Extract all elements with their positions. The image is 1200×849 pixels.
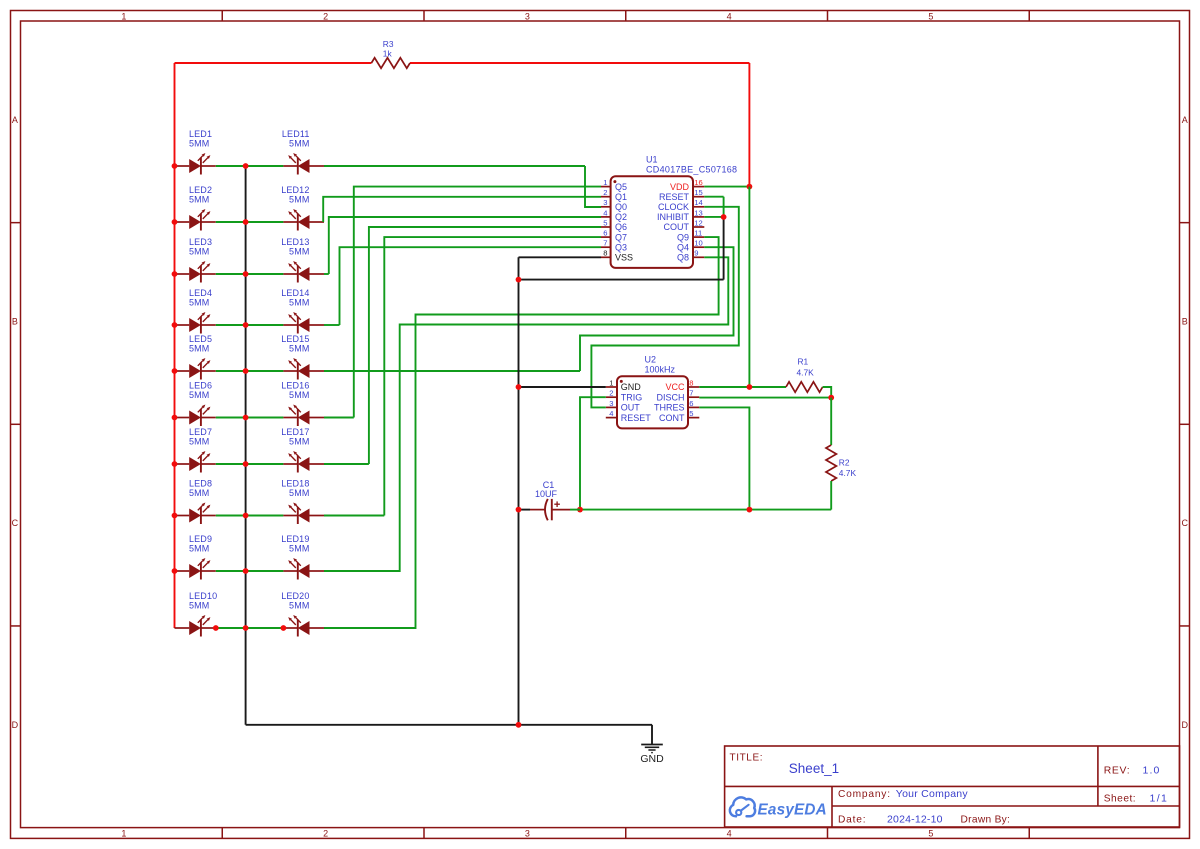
wire RESET pin15 [704, 196, 723, 198]
svg-text:1: 1 [121, 829, 126, 839]
svg-text:Drawn By:: Drawn By: [961, 815, 1011, 826]
wire row8 stub [324, 515, 384, 517]
svg-text:5MM: 5MM [289, 247, 309, 257]
svg-text:REV:: REV: [1104, 765, 1131, 776]
svg-text:LED6: LED6 [189, 381, 212, 391]
U1 pin 3 Q0 [601, 206, 611, 208]
svg-text:LED16: LED16 [281, 381, 309, 391]
svg-text:5MM: 5MM [289, 390, 309, 400]
wire LED3 cathode [216, 273, 246, 275]
svg-text:Q4: Q4 [677, 242, 689, 252]
svg-text:RESET: RESET [621, 413, 652, 423]
svg-text:COUT: COUT [664, 222, 690, 232]
wire LED9 cathode [216, 570, 246, 572]
wire TRIG to rail [580, 397, 606, 509]
svg-text:9: 9 [694, 249, 698, 258]
LED20 5MM [281, 591, 324, 636]
U1 pin 5 Q6 [601, 226, 611, 228]
svg-text:B: B [1182, 317, 1188, 327]
svg-text:5MM: 5MM [189, 195, 209, 205]
node rail THRES [747, 507, 753, 513]
svg-text:Q1: Q1 [615, 192, 627, 202]
svg-text:D: D [1181, 720, 1188, 730]
wire row5 horizontal [324, 370, 580, 372]
wire row3 stub [324, 273, 329, 275]
wire VDD pin16 [704, 186, 749, 188]
svg-text:4: 4 [603, 208, 607, 217]
svg-text:4.7K: 4.7K [797, 367, 815, 377]
node anode bus row 6 [172, 415, 178, 421]
svg-text:100kHz: 100kHz [645, 365, 676, 375]
LED11 5MM [282, 129, 324, 174]
svg-text:LED5: LED5 [189, 334, 212, 344]
svg-text:INHIBIT: INHIBIT [657, 212, 690, 222]
U2 pin 8 VCC [688, 386, 699, 388]
svg-text:Q0: Q0 [615, 202, 627, 212]
svg-text:LED17: LED17 [281, 427, 309, 437]
U1 pin 15 RESET [693, 196, 704, 198]
svg-text:TITLE:: TITLE: [730, 753, 764, 764]
svg-text:LED7: LED7 [189, 427, 212, 437]
U1 pin 6 Q7 [601, 236, 611, 238]
node cathode bus row 7 [243, 461, 249, 467]
U2 pin 6 THRES [688, 406, 699, 408]
svg-text:8: 8 [603, 249, 607, 258]
svg-text:LED20: LED20 [281, 591, 309, 601]
svg-text:LED10: LED10 [189, 591, 217, 601]
resistor R3 [371, 58, 410, 68]
svg-text:1: 1 [609, 378, 613, 387]
wire ground run [246, 724, 652, 726]
node anode bus row 8 [172, 513, 178, 519]
svg-text:5MM: 5MM [289, 139, 309, 149]
svg-text:3: 3 [609, 399, 613, 408]
svg-text:C: C [12, 518, 19, 528]
svg-text:14: 14 [694, 198, 702, 207]
svg-text:LED2: LED2 [189, 185, 212, 195]
svg-text:16: 16 [694, 178, 702, 187]
svg-text:CLOCK: CLOCK [658, 202, 689, 212]
wire LED5 cathode [216, 370, 246, 372]
U1 pin 8 VSS [601, 256, 611, 258]
LED13 5MM [281, 237, 324, 282]
wire row7 to Q6 [369, 227, 601, 464]
wire row4 to Q3 [340, 247, 602, 325]
svg-text:CD4017BE_C507168: CD4017BE_C507168 [646, 164, 737, 174]
wire row1 to Q0 [324, 165, 585, 167]
svg-text:5MM: 5MM [289, 601, 309, 611]
LED15 5MM [281, 334, 324, 379]
wire row4 stub [324, 324, 340, 326]
node anode bus row 5 [172, 368, 178, 374]
LED2 5MM [175, 185, 216, 230]
svg-text:11: 11 [694, 229, 702, 238]
capacitor C1 10UF [530, 480, 570, 520]
wire U2 GND [519, 386, 606, 388]
node anode bus row 3 [172, 271, 178, 277]
svg-text:6: 6 [603, 229, 607, 238]
wire cathode bus [245, 166, 247, 725]
node anode bus row 4 [172, 322, 178, 328]
svg-text:5: 5 [928, 829, 933, 839]
svg-text:5MM: 5MM [289, 298, 309, 308]
svg-text:THRES: THRES [654, 403, 685, 413]
wire VDD down to VCC [748, 187, 750, 387]
svg-text:VSS: VSS [615, 253, 633, 263]
wire LED18 cathode [246, 515, 284, 517]
wire ground bus vertical [518, 257, 520, 725]
LED14 5MM [281, 288, 324, 333]
node U2 GND branch [516, 384, 522, 390]
svg-text:R2: R2 [839, 457, 850, 467]
wire row5 to Q4 [580, 247, 734, 371]
svg-text:5MM: 5MM [289, 437, 309, 447]
svg-text:5MM: 5MM [189, 437, 209, 447]
LED4 5MM [175, 288, 216, 333]
svg-text:EasyEDA: EasyEDA [758, 802, 827, 819]
wire row6 stub [324, 417, 354, 419]
wire LED8 cathode [216, 515, 246, 517]
wire row10 to Q9 [324, 237, 719, 628]
wire VDD top right [410, 62, 749, 64]
svg-text:LED14: LED14 [281, 288, 309, 298]
svg-text:LED1: LED1 [189, 129, 212, 139]
U2 pin 2 TRIG [606, 396, 617, 398]
svg-text:8: 8 [689, 378, 693, 387]
svg-text:5MM: 5MM [189, 488, 209, 498]
node C1 ground [516, 507, 522, 513]
LED1 5MM [175, 129, 216, 174]
node cathode bus row 10 [243, 625, 249, 631]
LED10 5MM [175, 591, 218, 636]
svg-text:5: 5 [603, 218, 607, 227]
svg-text:1/1: 1/1 [1150, 793, 1169, 805]
IC U2 100kHz 555 timer body [617, 376, 688, 428]
svg-text:TRIG: TRIG [621, 392, 643, 402]
svg-text:R1: R1 [798, 357, 809, 367]
wire ground drop [651, 725, 653, 745]
wire LED15 cathode [246, 370, 284, 372]
U2 pin 3 OUT [606, 406, 617, 408]
wire LED20 cathode [246, 627, 284, 629]
LED18 5MM [281, 479, 324, 524]
wire LED6 cathode [216, 417, 246, 419]
wire LED17 cathode [246, 463, 284, 465]
wire CLOCK to OUT [591, 207, 738, 408]
svg-text:12: 12 [694, 218, 702, 227]
svg-text:1: 1 [121, 11, 126, 21]
wire RESET drop [723, 197, 725, 218]
svg-text:LED12: LED12 [281, 185, 309, 195]
svg-text:5MM: 5MM [189, 544, 209, 554]
node anode bus row 1 [172, 163, 178, 169]
LED17 5MM [281, 427, 324, 472]
svg-text:4: 4 [609, 409, 613, 418]
resistor R2 4.7K [826, 445, 836, 481]
U2 pin 4 RESET [606, 417, 617, 419]
svg-text:7: 7 [603, 239, 607, 248]
U1 pin 13 INHIBIT [693, 216, 704, 218]
EasyEDA logo [730, 797, 827, 818]
node anode bus row 9 [172, 568, 178, 574]
svg-text:1.0: 1.0 [1143, 764, 1161, 776]
wire C1 left [519, 509, 531, 511]
svg-text:LED3: LED3 [189, 237, 212, 247]
wire LED4 cathode [216, 324, 246, 326]
svg-text:Sheet:: Sheet: [1104, 794, 1136, 805]
svg-text:GND: GND [621, 382, 642, 392]
svg-text:Date:: Date: [838, 815, 866, 826]
svg-text:U2: U2 [645, 355, 657, 365]
LED6 5MM [175, 381, 216, 426]
U1 pin 7 Q3 [601, 246, 611, 248]
svg-text:4: 4 [727, 829, 732, 839]
svg-text:2: 2 [609, 389, 613, 398]
svg-text:5: 5 [689, 409, 693, 418]
svg-text:Q7: Q7 [615, 232, 627, 242]
svg-text:3: 3 [525, 11, 530, 21]
svg-text:Sheet_1: Sheet_1 [789, 761, 839, 776]
wire VDD top left [175, 62, 372, 64]
svg-text:2: 2 [603, 188, 607, 197]
svg-text:Q8: Q8 [677, 253, 689, 263]
node ground junction [516, 722, 522, 728]
svg-text:5MM: 5MM [189, 601, 209, 611]
wire C1 right [570, 509, 580, 511]
wire row2 to Q1 [323, 197, 601, 222]
node DISCH junction [828, 395, 834, 401]
svg-text:Q9: Q9 [677, 232, 689, 242]
node cathode bus row 6 [243, 415, 249, 421]
svg-text:4: 4 [727, 11, 732, 21]
svg-text:A: A [12, 115, 18, 125]
svg-text:5MM: 5MM [189, 139, 209, 149]
node INHIBIT junction [721, 214, 727, 220]
svg-text:10: 10 [694, 239, 702, 248]
LED7 5MM [175, 427, 216, 472]
wire row3 to Q2 [329, 217, 601, 274]
svg-text:U1: U1 [646, 155, 658, 165]
LED12 5MM [281, 185, 324, 230]
svg-text:5MM: 5MM [189, 390, 209, 400]
wire inhibit to vss run [519, 279, 724, 281]
node rail C1 [577, 507, 583, 513]
node VSS branch [516, 277, 522, 283]
svg-text:DISCH: DISCH [656, 392, 684, 402]
wire row8 to Q7 [384, 237, 601, 515]
wire LED2 cathode [216, 221, 246, 223]
svg-text:LED19: LED19 [281, 534, 309, 544]
title block [725, 746, 1180, 827]
wire LED7 cathode [216, 463, 246, 465]
node cathode bus row 2 [243, 219, 249, 225]
svg-text:Q3: Q3 [615, 242, 627, 252]
LED9 5MM [175, 534, 216, 579]
node cathode bus row 1 [243, 163, 249, 169]
svg-text:3: 3 [603, 198, 607, 207]
wire anode bus [174, 63, 176, 628]
node anode bus row 2 [172, 219, 178, 225]
U1 pin 9 Q8 [693, 256, 704, 258]
wire LED14 cathode [246, 324, 284, 326]
svg-text:5: 5 [928, 11, 933, 21]
svg-text:RESET: RESET [659, 192, 690, 202]
svg-text:5MM: 5MM [289, 488, 309, 498]
U1 pin 16 VDD [693, 186, 704, 188]
wire DISCH pin7 [699, 397, 831, 399]
svg-text:10UF: 10UF [535, 489, 558, 499]
svg-text:LED8: LED8 [189, 479, 212, 489]
wire R2 to rail [830, 481, 832, 510]
U1 pin 1 Q5 [601, 186, 611, 188]
ground [640, 745, 664, 766]
wire INHIBIT pin13 [704, 216, 723, 218]
svg-text:Q5: Q5 [615, 182, 627, 192]
svg-text:5MM: 5MM [189, 344, 209, 354]
wire LED16 cathode [246, 417, 284, 419]
svg-text:4.7K: 4.7K [839, 468, 857, 478]
svg-text:5MM: 5MM [289, 195, 309, 205]
wire VCC pin8 to R1 [699, 386, 786, 388]
node cathode bus row 9 [243, 568, 249, 574]
svg-text:5MM: 5MM [189, 298, 209, 308]
svg-text:5MM: 5MM [289, 544, 309, 554]
node cathode bus row 4 [243, 322, 249, 328]
wire LED11 cathode [246, 165, 284, 167]
wire VDD right drop [748, 63, 750, 187]
wire inhibit to vss drop [723, 217, 725, 280]
svg-text:LED18: LED18 [281, 479, 309, 489]
svg-text:LED11: LED11 [282, 129, 310, 139]
LED8 5MM [175, 479, 216, 524]
wire VSS pin8 [519, 256, 602, 258]
svg-text:15: 15 [694, 188, 702, 197]
node LED20 cathode [281, 625, 287, 631]
node VCC junction [747, 384, 753, 390]
wire LED10 cathode [216, 627, 246, 629]
U1 pin 14 CLOCK [693, 206, 704, 208]
svg-text:OUT: OUT [621, 403, 641, 413]
U1 pin 4 Q2 [601, 216, 611, 218]
svg-text:LED13: LED13 [281, 237, 309, 247]
svg-text:LED9: LED9 [189, 534, 212, 544]
wire LED13 cathode [246, 273, 284, 275]
svg-text:Company:: Company: [838, 789, 891, 800]
LED19 5MM [281, 534, 324, 579]
node VDD junction [747, 184, 753, 190]
svg-text:VCC: VCC [665, 382, 685, 392]
svg-text:LED4: LED4 [189, 288, 212, 298]
wire row7 stub [324, 463, 369, 465]
svg-text:R3: R3 [383, 39, 394, 49]
wire timing rail [580, 509, 831, 511]
wire row9 to Q8 [324, 257, 728, 571]
LED5 5MM [175, 334, 216, 379]
IC U1 CD4017BE_C507168 body [611, 176, 693, 268]
wire DISCH to R2 [830, 398, 832, 445]
svg-text:3: 3 [525, 829, 530, 839]
svg-text:C: C [1181, 518, 1188, 528]
svg-text:D: D [12, 720, 19, 730]
wire THRES to rail [699, 407, 749, 509]
wire LED1 cathode [216, 165, 246, 167]
svg-text:Q6: Q6 [615, 222, 627, 232]
svg-text:A: A [1182, 115, 1188, 125]
svg-text:CONT: CONT [659, 413, 685, 423]
node anode bus row 7 [172, 461, 178, 467]
svg-text:2: 2 [323, 829, 328, 839]
U2 pin 1 GND [606, 386, 617, 388]
node LED10 cathode [213, 625, 219, 631]
svg-text:Q2: Q2 [615, 212, 627, 222]
node cathode bus row 5 [243, 368, 249, 374]
svg-text:13: 13 [694, 208, 702, 217]
svg-text:B: B [12, 317, 18, 327]
U1 pin 11 Q9 [693, 236, 704, 238]
wire R1 to DISCH [823, 387, 832, 398]
U2 pin 7 DISCH [688, 396, 699, 398]
svg-text:LED15: LED15 [281, 334, 309, 344]
svg-text:1: 1 [603, 178, 607, 187]
LED3 5MM [175, 237, 216, 282]
U1 pin 10 Q4 [693, 246, 704, 248]
svg-text:7: 7 [689, 389, 693, 398]
LED16 5MM [281, 381, 324, 426]
svg-text:Your Company: Your Company [896, 788, 969, 800]
wire LED19 cathode [246, 570, 284, 572]
svg-text:6: 6 [689, 399, 693, 408]
U1 pin 2 Q1 [601, 196, 611, 198]
wire LED12 cathode [246, 221, 284, 223]
svg-text:5MM: 5MM [289, 344, 309, 354]
svg-text:2: 2 [323, 11, 328, 21]
wire row6 to Q5 [354, 187, 601, 418]
U2 pin 5 CONT [688, 417, 699, 419]
svg-text:5MM: 5MM [189, 247, 209, 257]
wire riser Q0 [585, 166, 601, 207]
node cathode bus row 8 [243, 513, 249, 519]
U1 pin 12 COUT [693, 226, 704, 228]
svg-text:GND: GND [640, 753, 664, 765]
svg-text:2024-12-10: 2024-12-10 [887, 814, 943, 826]
node cathode bus row 3 [243, 271, 249, 277]
svg-text:VDD: VDD [670, 182, 690, 192]
svg-text:1k: 1k [383, 49, 393, 59]
resistor R1 4.7K [786, 382, 823, 392]
